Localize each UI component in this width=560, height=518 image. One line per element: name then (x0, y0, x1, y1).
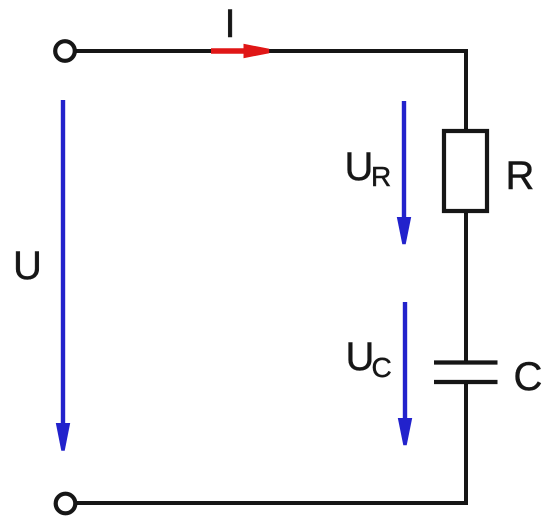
svg-text:C: C (514, 355, 543, 399)
wire bottom horizontal (70, 501, 468, 505)
label UC (346, 335, 392, 383)
current arrow I (red) (211, 44, 269, 58)
wire right lower (capacitor to bottom corner) (464, 382, 468, 505)
voltage arrow UC (blue) (398, 302, 412, 445)
svg-text:R: R (506, 154, 535, 198)
wire right middle (resistor to capacitor) (464, 211, 468, 362)
terminal bottom-left (56, 494, 76, 514)
svg-text:C: C (372, 352, 392, 383)
svg-text:U: U (13, 244, 42, 288)
svg-text:U: U (346, 335, 375, 379)
voltage arrow UR (blue) (397, 101, 411, 244)
label UR (345, 145, 392, 192)
svg-text:U: U (345, 145, 374, 189)
capacitor C plate bottom (434, 380, 498, 384)
terminal top-left (55, 41, 75, 61)
svg-text:R: R (371, 161, 391, 192)
wire right upper (top corner to resistor) (464, 49, 468, 131)
voltage arrow U (blue) (56, 100, 70, 451)
resistor R (444, 131, 487, 211)
svg-text:I: I (224, 2, 235, 46)
capacitor C plate top (434, 360, 498, 364)
wire top horizontal (70, 49, 466, 53)
